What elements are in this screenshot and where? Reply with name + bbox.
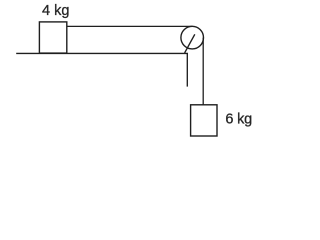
block M2 (6 kg) hanging	[191, 105, 217, 136]
svg-text:4 kg: 4 kg	[42, 3, 69, 19]
pulley support strut from table edge	[185, 34, 195, 53]
table top surface line	[16, 52, 188, 54]
block M1 (4 kg) on table	[39, 22, 66, 53]
rope vertical segment (pulley to hanging block)	[202, 38, 204, 105]
table right edge (vertical)	[186, 53, 188, 87]
pulley wheel	[181, 26, 204, 49]
svg-text:6 kg: 6 kg	[225, 112, 252, 128]
rope horizontal segment (block to pulley)	[67, 25, 193, 27]
